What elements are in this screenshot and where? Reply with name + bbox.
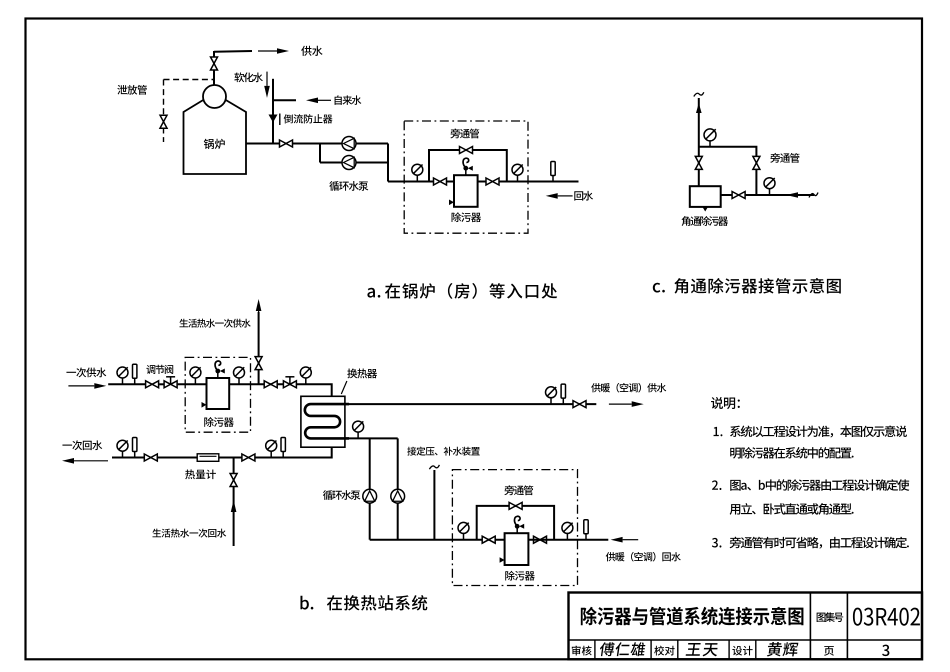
valve DHW supply — [255, 357, 262, 370]
thermometer b4 — [133, 438, 137, 458]
thermometer b2 — [561, 384, 565, 404]
valve on bypass A — [460, 147, 473, 154]
vent cock B1 — [215, 361, 225, 378]
gauge PI b6 — [353, 421, 364, 438]
flow arrow softened water — [264, 72, 270, 98]
note 1 line 1 — [714, 425, 907, 437]
pipe: softened water drop — [272, 79, 274, 144]
signature 2 — [686, 643, 719, 656]
note 1 line 2 — [730, 447, 853, 459]
flow arrow tap water — [306, 98, 331, 104]
pipe: separator C outlet — [721, 194, 732, 196]
pipe: tap water — [273, 99, 296, 101]
valve return b2 — [242, 454, 255, 461]
label 除污器 b2 — [505, 571, 535, 581]
gauge PI a1 — [412, 164, 423, 181]
flow arrow secondary supply — [609, 401, 644, 407]
drain A — [449, 200, 454, 206]
caption a — [367, 283, 557, 299]
pump P1 — [342, 137, 356, 151]
pipe: secondary return top — [345, 437, 398, 439]
label 接定压、补水装置 — [407, 447, 480, 456]
gauge PI b3 — [234, 367, 245, 384]
valve before separator A — [434, 178, 447, 185]
label 校对 — [654, 646, 674, 656]
separator B1 body — [207, 378, 230, 409]
pipe: return main A — [500, 181, 579, 183]
heat meter — [197, 454, 219, 462]
gauge PI b5 — [546, 387, 557, 404]
valve before separator B2 — [482, 536, 495, 543]
pipe: boiler outlet — [246, 143, 320, 145]
note 2 line 1 — [712, 479, 909, 491]
break squiggle right C — [809, 193, 818, 198]
thermometer b1 — [133, 364, 137, 384]
atlas number 03R402 — [853, 608, 920, 626]
label 调节阀 — [146, 365, 173, 374]
pipe: pump leg 1 — [369, 438, 371, 539]
pipe: secondary supply out — [345, 403, 596, 405]
gauge PI b1 — [117, 367, 128, 384]
label 循环水泵 — [329, 181, 368, 191]
gauge PI c1 — [704, 129, 716, 147]
label 一次供水 — [66, 368, 106, 378]
valve DHW return — [230, 474, 237, 487]
gauge PI a2 — [512, 164, 523, 181]
label 页 — [824, 646, 834, 656]
pipe: DHW return branch — [233, 458, 235, 547]
pipe: secondary return in — [528, 539, 608, 541]
label 换热器 with pointer — [341, 369, 377, 394]
flow arrow DHW supply — [256, 299, 262, 335]
flow arrow up C — [696, 103, 702, 113]
chain box around separator A — [404, 121, 528, 233]
break squiggle make-up — [429, 465, 439, 469]
pipe: pump branch upper — [320, 143, 388, 145]
label 角通除污器 — [682, 216, 729, 226]
pipe: boiler steam riser — [213, 51, 215, 86]
pipe: pump branch lower — [320, 144, 388, 163]
vent cock B2 — [514, 516, 524, 533]
caption b — [300, 595, 427, 610]
drain B1 — [202, 402, 207, 408]
separator A body — [454, 175, 478, 207]
label 旁通管 a — [450, 129, 479, 139]
note 3 — [712, 537, 909, 549]
flow arrow primary return — [62, 458, 108, 464]
pipe: outlet main C — [746, 194, 814, 196]
label 倒流防止器 — [284, 114, 333, 123]
flow arrow to supply — [258, 48, 289, 54]
regulating valve — [164, 377, 177, 388]
signature 3 — [767, 642, 799, 656]
backflow preventer — [269, 114, 280, 126]
boiler body — [184, 85, 247, 174]
label 自来水 — [335, 95, 362, 104]
valve b2 — [264, 381, 277, 388]
separator B2 body — [505, 533, 529, 565]
gauge PI b10 — [266, 440, 277, 457]
label 旁通管 c — [770, 153, 799, 163]
HX coil — [305, 404, 349, 438]
gauge PI b9 — [117, 440, 128, 457]
valve b1 — [146, 381, 159, 388]
gauge PI c2 — [764, 178, 775, 195]
chain box B1 — [185, 357, 250, 432]
valve return b1 — [144, 454, 157, 461]
label 设计 — [732, 646, 752, 656]
valve secondary supply — [573, 401, 586, 408]
label 生活热水一次回水 — [152, 529, 226, 538]
thermometer b5 — [281, 438, 285, 458]
pipe: HX bottom out — [112, 447, 332, 457]
valve on bypass C — [753, 156, 760, 169]
label 图集号 — [817, 612, 844, 622]
gauge PI b4 — [300, 367, 311, 384]
drain B2 — [500, 557, 505, 563]
label 泄放管 — [117, 85, 147, 95]
pipe: riser C — [698, 98, 700, 186]
valve after separator B2 — [534, 536, 547, 543]
note 2 line 2 — [730, 503, 854, 515]
valve after separator C — [732, 192, 745, 199]
label 旁通管 b2 — [504, 485, 533, 495]
title block outer — [569, 593, 923, 660]
page number 3 — [882, 645, 889, 656]
flow arrow DHW return — [231, 500, 237, 528]
break squiggle top C — [694, 92, 704, 96]
gauge PI b8 — [562, 522, 573, 539]
label 除污器 a — [452, 212, 482, 222]
valve on riser — [211, 57, 218, 70]
valve on boiler outlet — [280, 140, 293, 147]
label 回水 — [574, 191, 593, 201]
notes heading 说明 — [711, 397, 740, 409]
flow arrow return A — [546, 193, 573, 199]
label 循环水泵 b — [323, 490, 360, 500]
label 除污器 b1 — [204, 417, 234, 427]
gauge PI b7 — [458, 522, 469, 539]
pipe: bypass C — [699, 147, 757, 195]
valve after separator A — [486, 178, 499, 185]
label 一次回水 — [62, 440, 102, 450]
signature 1 — [599, 642, 646, 656]
pipe: supply header — [214, 50, 252, 53]
caption c — [653, 278, 841, 294]
label 生活热水一次供水 — [179, 319, 250, 328]
valve on riser C — [695, 156, 702, 169]
pump P2 — [342, 156, 356, 170]
pipe: DHW supply branch — [258, 312, 260, 384]
label 供水 — [301, 46, 322, 56]
chain box B2 — [452, 470, 577, 586]
angle separator body — [690, 186, 721, 207]
title text — [581, 607, 804, 626]
gauge PI b2 — [190, 367, 201, 384]
label 锅炉 — [204, 139, 225, 149]
globe valve b2 — [283, 377, 296, 388]
heat exchanger body — [301, 396, 345, 447]
flow arrow primary supply — [68, 383, 106, 389]
vent cock A — [463, 158, 473, 175]
pipe: make-up connection — [433, 470, 435, 540]
label 供暖（空调）回水 — [606, 552, 681, 562]
flow arrow C — [786, 192, 798, 198]
pipe: separator A outlet — [478, 181, 486, 183]
pipe: primary supply — [108, 383, 311, 385]
pump P3 — [363, 489, 377, 503]
valve on blow-off — [160, 115, 167, 128]
pipe: bypass A — [429, 150, 507, 182]
label 供暖（空调）供水 — [591, 383, 666, 393]
label 软化水 — [234, 72, 263, 82]
valve bypass B2 — [509, 502, 522, 509]
drain C — [702, 207, 708, 212]
pipe: pump collector — [388, 144, 454, 182]
pipe: into HX — [311, 384, 332, 396]
title block dividers — [569, 593, 923, 660]
thermometer a1 — [551, 162, 555, 182]
label 审核 — [572, 646, 592, 656]
pipe: bypass B2 — [477, 506, 554, 540]
pipe: secondary return bottom — [370, 539, 505, 541]
flow arrow secondary return — [611, 537, 639, 543]
pipe: pump leg 2 — [397, 438, 399, 539]
label 热量计 — [185, 469, 216, 479]
thermometer b3 — [584, 520, 588, 540]
pump P4 — [391, 489, 405, 503]
pipe: blow-off dashed — [164, 80, 215, 143]
